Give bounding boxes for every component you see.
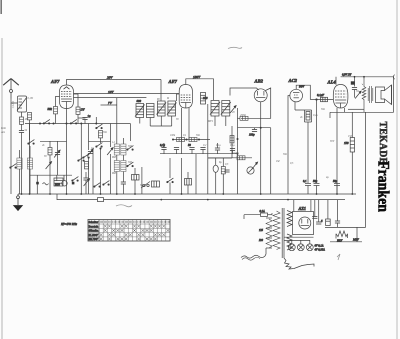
coupling coil left of AB2	[201, 93, 206, 105]
wire left edge drop	[10, 103, 12, 194]
cap 0,1	[326, 214, 331, 226]
AC2 anode wire	[296, 85, 310, 99]
pot circle	[247, 167, 254, 174]
IF transformer 1 coil a	[135, 104, 145, 118]
output transformer core	[368, 86, 373, 103]
tube AL4	[333, 85, 348, 109]
vline x181.5	[181, 158, 183, 194]
arrow var	[84, 179, 90, 186]
switch	[96, 143, 103, 148]
svg-text:1MΩ: 1MΩ	[233, 152, 238, 155]
antenna coil L1	[17, 96, 27, 112]
switch	[96, 124, 103, 129]
wire h109	[348, 108, 364, 110]
bottom winding	[284, 258, 314, 269]
switch	[103, 181, 110, 186]
resistor 150	[351, 112, 353, 137]
cap 50u	[335, 216, 340, 227]
svg-text:0,1μ: 0,1μ	[216, 144, 221, 147]
psu right: electro cap syms	[316, 216, 323, 224]
wire primary top to winding	[271, 213, 273, 215]
svg-text:0,1W: 0,1W	[28, 97, 34, 100]
switch S2	[28, 140, 35, 145]
coil rect horizontal	[132, 175, 140, 181]
svg-text:50μ: 50μ	[313, 180, 318, 183]
svg-text:100k: 100k	[170, 134, 176, 137]
wire tube cathode down	[66, 109, 68, 124]
svg-text:6,3V 1W: 6,3V 1W	[342, 74, 352, 77]
capacitor 50	[352, 88, 357, 90]
primary winding zigzag 2	[266, 219, 272, 248]
band coil box A2	[114, 161, 119, 172]
table row labels	[89, 220, 100, 241]
AB2 cathode down	[260, 102, 262, 194]
cathode bracket resistor	[295, 110, 312, 122]
capacitor 0,1uF	[321, 97, 328, 101]
grid cap wire	[177, 94, 180, 101]
junction dots	[237, 127, 262, 155]
vline x365.5 speaker to psu	[365, 112, 367, 227]
antenna	[3, 79, 19, 99]
capacitor 50u	[314, 184, 320, 195]
AL4 cathode wires	[336, 108, 338, 194]
svg-text:AL4: AL4	[327, 80, 337, 85]
band coil box B2	[121, 161, 126, 172]
capacitor	[230, 149, 235, 151]
svg-text:950: 950	[55, 183, 60, 187]
lamp 3	[306, 244, 313, 251]
junction dot	[315, 98, 317, 100]
switch S1b	[70, 119, 77, 124]
svg-text:0,1A: 0,1A	[260, 210, 265, 213]
capacitor	[189, 148, 194, 150]
wire h127.7	[238, 127, 271, 129]
vline x316.5 down	[316, 100, 318, 184]
wire 10V from tube right	[74, 93, 180, 95]
wire h237	[284, 236, 314, 238]
AB2 right loop	[241, 88, 271, 118]
HV secondary winding	[287, 211, 292, 227]
squiggle	[43, 183, 49, 185]
coil rect LW	[17, 158, 22, 169]
wire bus 2	[57, 194, 98, 200]
arrow var	[46, 162, 52, 169]
anode wire 25V	[67, 80, 162, 86]
svg-text:TEKADE: TEKADE	[377, 122, 389, 165]
svg-text:MF2: MF2	[207, 120, 214, 123]
AC2 grid wire	[288, 96, 290, 194]
switch S3	[72, 177, 79, 182]
resistor 2k	[49, 141, 51, 147]
heater winding	[287, 234, 292, 250]
mid column x88	[88, 124, 90, 151]
svg-text:Zf=470 kHz: Zf=470 kHz	[61, 222, 78, 226]
vline x357	[356, 227, 358, 241]
vline x207.8	[207, 104, 209, 194]
mid column x96	[95, 117, 97, 125]
resistor 5k 1W	[76, 107, 80, 114]
coil box small	[152, 181, 160, 187]
resistor 200	[240, 116, 248, 120]
switch cluster x142-160 y175-190	[141, 182, 150, 189]
vertical main x81	[80, 124, 82, 195]
switch	[94, 183, 101, 188]
wire tube1 cathode to bus	[66, 124, 68, 195]
svg-text:1,5-3,5: 1,5-3,5	[12, 100, 15, 108]
svg-text:50μ: 50μ	[333, 180, 338, 183]
grid wire left	[56, 97, 60, 107]
tube AC2	[290, 89, 303, 102]
variable capacitor	[87, 149, 93, 156]
wire	[100, 148, 102, 195]
wire v93	[92, 148, 94, 194]
arrow	[252, 162, 258, 169]
wire h153.7	[160, 153, 238, 155]
tube AF7 (1st)	[60, 85, 74, 109]
paper left edge	[1, 38, 3, 339]
switch right of coils	[127, 146, 134, 151]
svg-text:4V 0,35A: 4V 0,35A	[315, 249, 326, 252]
top wire right	[341, 77, 394, 113]
lower mid cluster: electrolytic	[213, 165, 218, 172]
tube AF7 (2nd)	[179, 85, 192, 109]
resistor	[85, 162, 89, 169]
pencil smudge	[116, 205, 132, 207]
bottom wire h112.3	[330, 111, 394, 113]
tube table grid	[88, 220, 170, 242]
wire x232	[231, 126, 233, 158]
resistor 10k	[21, 112, 23, 117]
lamp 1	[288, 244, 295, 251]
svg-text:KW: KW	[89, 237, 100, 241]
junction	[95, 123, 101, 150]
vline x196	[195, 154, 197, 194]
vline feed	[314, 200, 316, 217]
wire h227.4	[325, 226, 366, 228]
wire 25V drop	[160, 80, 162, 102]
IF transformer 1 coil b	[146, 104, 154, 118]
vline x330	[329, 112, 331, 118]
capacitor pair	[83, 178, 88, 180]
capacitor 1u	[82, 118, 87, 120]
switch	[167, 178, 174, 183]
svg-text:25V: 25V	[107, 76, 113, 80]
resistor on x232	[230, 136, 234, 143]
wire h99.5 grid coupling	[310, 99, 333, 101]
right pin wire	[74, 94, 79, 107]
electrolytic dot	[351, 81, 355, 84]
ground	[14, 194, 23, 211]
svg-text:50k: 50k	[48, 107, 53, 111]
resistor input	[28, 113, 32, 120]
left band: wire h123.5	[25, 123, 89, 125]
top feeds into psu	[293, 200, 295, 212]
wire h175	[30, 174, 72, 176]
switch	[78, 157, 85, 162]
wire 7V	[74, 97, 147, 99]
power transformer core	[282, 208, 284, 258]
AB2 top wire	[230, 88, 259, 96]
capacitor 0,1	[305, 184, 311, 195]
wires coil bottoms	[139, 118, 141, 124]
tube AZ1	[299, 217, 311, 229]
svg-text:0,2μ: 0,2μ	[313, 114, 318, 117]
wire x130	[129, 124, 131, 142]
wire	[19, 169, 21, 194]
capacitor bottom	[121, 182, 126, 184]
switch	[83, 154, 90, 159]
tube AB2	[254, 89, 267, 102]
svg-text:800: 800	[137, 99, 142, 103]
pencil mark	[337, 254, 340, 260]
wire	[29, 124, 31, 141]
tiny value labels	[12, 83, 364, 187]
capacitor 5k	[21, 124, 23, 130]
svg-text:1W: 1W	[81, 108, 86, 112]
wire h241.5	[330, 241, 362, 243]
resistor zigzag MEV	[336, 231, 348, 238]
table X marks	[100, 225, 170, 241]
switch right of coils 2	[127, 162, 134, 167]
capacitor row	[161, 148, 166, 150]
svg-text:10V: 10V	[108, 90, 114, 94]
capacitor 0,1	[215, 148, 220, 150]
IF transformer 2 coil a	[157, 101, 167, 116]
paper right edge	[396, 0, 398, 339]
field coil zigzag	[362, 80, 366, 113]
wire	[77, 118, 79, 124]
AC2 cathode wire	[294, 102, 296, 110]
IF transformer 3 coil a	[210, 101, 220, 117]
end hook	[393, 75, 394, 80]
svg-text:AF7: AF7	[50, 79, 60, 84]
svg-text:Erde: Erde	[0, 127, 7, 130]
svg-text:100p: 100p	[249, 134, 255, 137]
svg-text:AF7: AF7	[168, 79, 178, 84]
coil 3 bottom wires	[214, 116, 216, 126]
svg-text:AB2: AB2	[254, 79, 264, 84]
svg-text:180V: 180V	[193, 75, 201, 79]
resistor v	[221, 167, 225, 174]
primary winding zigzag	[273, 211, 280, 250]
wire h141	[89, 140, 111, 142]
coil box 888	[185, 179, 192, 186]
column x108 varrow	[110, 124, 112, 148]
svg-text:AC2: AC2	[288, 78, 298, 83]
IF transformer 2 coil b	[167, 101, 177, 116]
wire v141.9	[141, 167, 143, 194]
resistor 1M	[208, 157, 252, 159]
table header labels	[100, 221, 169, 223]
svg-text:200Ω: 200Ω	[240, 114, 246, 117]
band coil box A1	[114, 144, 119, 155]
fuse 0,1A	[244, 210, 272, 216]
capacitor 100p	[252, 130, 257, 132]
bus junction dots	[21, 193, 354, 200]
svg-text:0,1μ: 0,1μ	[230, 144, 235, 147]
anode wire 180V	[186, 79, 214, 100]
wire h158	[208, 157, 232, 159]
junction dots	[39, 123, 82, 125]
variable capacitor C-tune1	[54, 141, 60, 175]
coil rect MW	[27, 158, 32, 169]
resistor h 100k	[177, 138, 185, 142]
wire	[85, 180, 87, 194]
svg-text:Franken: Franken	[375, 161, 393, 212]
lamp 2	[297, 244, 304, 251]
wires coils	[116, 155, 118, 161]
wire h126	[150, 125, 172, 127]
scan smudge top	[228, 47, 242, 48]
tube AZ1 rect socket	[293, 212, 314, 235]
capacitor 30u	[334, 184, 340, 195]
svg-text:6V 0,1A: 6V 0,1A	[315, 245, 324, 248]
vline x237.5	[237, 108, 239, 194]
capacitor	[200, 148, 205, 150]
cap small	[224, 170, 229, 172]
IF transformer 3 coil b	[221, 101, 231, 117]
resistor h 2	[189, 138, 197, 142]
svg-text:MEV: MEV	[352, 239, 359, 242]
svg-text:30V: 30V	[330, 140, 335, 143]
ground bus	[18, 193, 356, 195]
tube2 cathode wires	[181, 108, 183, 154]
wire antenna to coil	[11, 99, 18, 104]
svg-text:Ant.: Ant.	[0, 131, 6, 134]
vline x308 down	[307, 122, 309, 183]
wire h141 left	[40, 140, 67, 142]
svg-text:150: 150	[344, 141, 349, 145]
wire	[21, 133, 23, 195]
svg-text:AZ1: AZ1	[298, 206, 306, 211]
svg-text:0,1μ: 0,1μ	[160, 144, 165, 147]
switch S1a	[43, 119, 50, 124]
wire drops to top line	[354, 77, 356, 87]
capacitor	[174, 148, 179, 150]
lamp wires	[291, 240, 293, 244]
svg-text:Schalter: Schalter	[89, 220, 99, 224]
coil 850	[54, 178, 63, 186]
band coil box B1	[121, 144, 126, 155]
wire h139 with resistors	[173, 139, 210, 141]
resistor	[99, 131, 103, 138]
svg-text:0,1: 0,1	[303, 180, 307, 183]
resistor 50k	[54, 107, 58, 114]
mains cord squiggle	[241, 248, 266, 258]
wire	[36, 175, 38, 194]
dial row y184: contact	[36, 182, 74, 185]
diode arrow	[355, 91, 361, 98]
primary taps	[259, 218, 272, 248]
vline x270.7 down	[270, 128, 272, 194]
svg-text:1μ: 1μ	[88, 114, 92, 118]
speaker magnet+cone	[376, 85, 392, 105]
switch wave	[10, 164, 17, 169]
anode wire up	[335, 77, 337, 85]
junction dots	[172, 139, 200, 141]
trim arrows right	[230, 106, 236, 113]
